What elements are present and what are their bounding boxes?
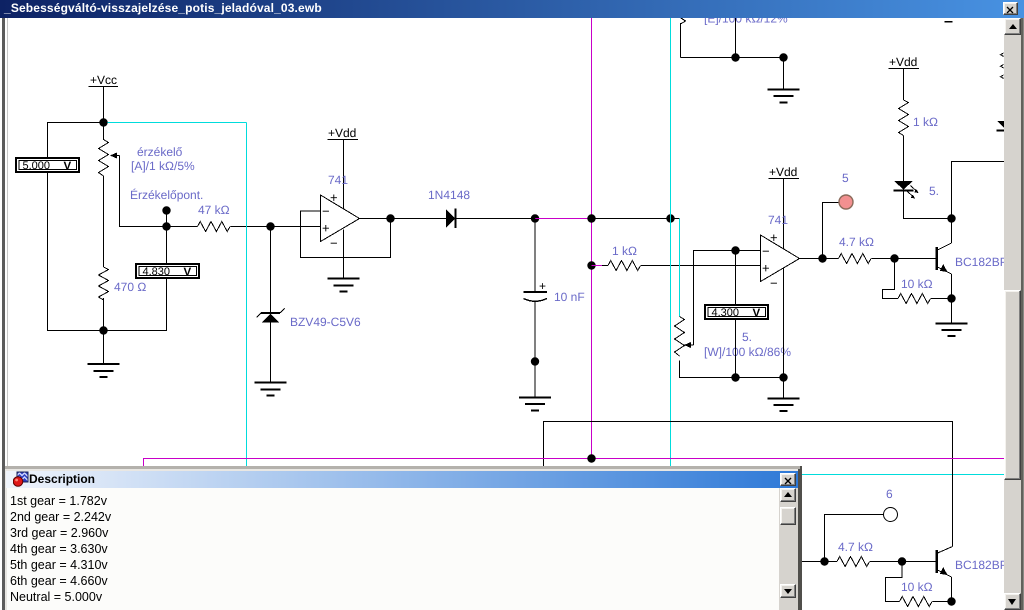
wire voltmeter3 bottom stem — [735, 319, 737, 378]
wire magenta cap to net — [535, 218, 591, 220]
svg-text:+Vdd: +Vdd — [889, 55, 917, 69]
wire 4.7k to base — [872, 258, 937, 260]
svg-text:−: − — [762, 244, 770, 259]
svg-text:−: − — [322, 204, 330, 219]
voltmeter 4.830 V — [136, 264, 199, 279]
wire jog to pot W — [671, 218, 680, 220]
wire op2 output — [800, 258, 839, 260]
wire connector 6 to base row — [825, 515, 884, 562]
node Vcc junction — [99, 118, 107, 126]
ground G3 — [328, 279, 360, 292]
wire LED bottom — [904, 191, 952, 219]
svg-text:1N4148: 1N4148 — [428, 188, 470, 202]
description content — [7, 488, 779, 610]
svg-text:4.7 kΩ: 4.7 kΩ — [838, 540, 873, 554]
ground G4 — [519, 362, 551, 411]
node collector junction — [947, 214, 955, 222]
svg-text:5.: 5. — [929, 184, 939, 198]
op-amp U2 741 — [761, 230, 800, 291]
node op1 output junction — [386, 214, 394, 222]
svg-text:+Vcc: +Vcc — [90, 73, 117, 87]
voltmeter 5.000 V — [16, 158, 79, 173]
svg-text:−: − — [330, 236, 338, 251]
node top mid junction2 — [779, 53, 787, 61]
potentiometer [A] érzékelő — [99, 140, 120, 177]
svg-text:V: V — [753, 308, 761, 320]
svg-text:10 kΩ: 10 kΩ — [901, 277, 933, 291]
op-amp U1 741 — [321, 190, 360, 251]
wire fragment arrows right edge — [1001, 53, 1004, 78]
wire op1 output — [360, 218, 447, 220]
wire Vdd1 stem — [343, 140, 345, 210]
ground G2 — [255, 383, 287, 396]
svg-text:4.830: 4.830 — [143, 266, 171, 278]
scrollbar thumb — [1004, 290, 1021, 480]
svg-text:10 nF: 10 nF — [554, 290, 585, 304]
svg-text:+: + — [762, 261, 770, 276]
close button description — [780, 473, 796, 486]
svg-text:+: + — [322, 221, 330, 236]
resistor 4.7k first — [839, 254, 872, 264]
wire voltmeter2 top stem — [166, 227, 168, 264]
node bottom wire junction2 — [779, 373, 787, 381]
resistor 47k — [198, 222, 231, 232]
node emitter junction2 — [947, 597, 955, 605]
node 4.7k2 left junction — [820, 557, 828, 565]
LED D2 — [894, 181, 919, 199]
node wiper junction — [162, 222, 170, 230]
node red connector 5 — [839, 195, 853, 209]
ground G7 — [768, 58, 800, 103]
svg-text:5.000: 5.000 — [23, 160, 51, 172]
node magenta 1k junction — [587, 261, 595, 269]
window right border — [1021, 18, 1023, 610]
svg-text:1 kΩ: 1 kΩ — [913, 115, 938, 129]
node magenta bottom junction — [587, 454, 595, 462]
resistor 1k led — [899, 100, 909, 136]
window left border — [2, 18, 5, 610]
node cap top junction — [531, 214, 539, 222]
wire Vdd2 stem — [783, 179, 785, 250]
svg-text:5.: 5. — [742, 330, 752, 344]
potentiometer [W] — [675, 317, 694, 357]
wire left branch bottom — [48, 173, 104, 331]
wire black net to cyan node — [592, 218, 671, 220]
wire to red connector — [823, 203, 840, 259]
wire 10k1 jog — [883, 259, 899, 299]
node emitter junction — [947, 294, 955, 302]
node connector 6 — [884, 508, 898, 522]
wire Vcc stem — [103, 87, 105, 141]
wire Vdd3 stem — [903, 69, 905, 101]
resistor 470 Ohm — [99, 267, 109, 300]
wire left branch top — [48, 123, 104, 158]
description scrollbar — [779, 488, 796, 610]
svg-text:741: 741 — [328, 173, 348, 187]
node base junction1 — [890, 254, 898, 262]
wire fragment dash top right — [945, 21, 953, 23]
node bottom wire junction1 — [731, 373, 739, 381]
wire 1k to LED — [903, 136, 905, 182]
power +Vdd led — [889, 55, 920, 69]
wire 10k1 right lead — [931, 298, 952, 300]
wire cap bottom stem — [534, 301, 536, 362]
wire collector top feed — [952, 162, 1007, 219]
svg-text:+: + — [330, 190, 338, 205]
node magenta top junction — [587, 214, 595, 222]
svg-text:−: − — [770, 276, 778, 291]
svg-text:érzékelő: érzékelő — [137, 145, 183, 159]
window title bar — [0, 0, 1024, 18]
wire pot A to 470 — [103, 176, 105, 267]
svg-text:+: + — [539, 279, 546, 293]
wire pot W bottom — [680, 361, 784, 378]
wire op2 vminus stub — [783, 268, 785, 378]
wire cyan selected left vertical — [246, 123, 248, 467]
potentiometer [E] fragment top — [680, 17, 686, 58]
wire 10k2 jog — [886, 562, 903, 602]
svg-text:BC182BP: BC182BP — [955, 255, 1008, 269]
svg-text:47 kΩ: 47 kΩ — [198, 203, 230, 217]
node cap ground junction — [531, 357, 539, 365]
wire magenta vertical — [591, 18, 593, 459]
wire top mid vertical — [735, 14, 737, 58]
resistor 1k — [608, 261, 641, 271]
node Érzékelőpont connector — [162, 206, 170, 214]
wire cap top stem — [534, 219, 536, 293]
wire long mid horizontal — [544, 422, 953, 547]
wire Q1 collector up — [951, 219, 953, 244]
node top mid junction1 — [731, 53, 739, 61]
resistor 10k first — [898, 294, 931, 304]
svg-text:470 Ω: 470 Ω — [114, 280, 146, 294]
right scrollbar — [1004, 18, 1021, 610]
svg-text:1 kΩ: 1 kΩ — [612, 244, 637, 258]
wire zener top stem — [270, 227, 272, 314]
svg-text:+Vdd: +Vdd — [769, 165, 797, 179]
wire 10k2 right lead — [933, 601, 952, 603]
svg-text:741: 741 — [768, 213, 788, 227]
wire op1 feedback — [301, 211, 391, 258]
wire Q1 emitter down — [951, 274, 953, 299]
diode 1N4148 — [446, 209, 456, 229]
wire zener bottom stem — [270, 323, 272, 383]
Description window — [5, 466, 802, 610]
svg-text:V: V — [184, 267, 192, 279]
capacitor 10nF — [524, 279, 548, 301]
wire voltmeter2 bottom stem — [104, 278, 167, 331]
wire top mid horizontal — [681, 57, 784, 59]
node bottom junction — [99, 326, 107, 334]
wire magenta bottom horizontal — [144, 459, 1007, 468]
wire Q2 emitter down — [951, 577, 953, 602]
power +Vcc — [89, 73, 119, 87]
svg-text:10 kΩ: 10 kΩ — [901, 580, 933, 594]
ground G6 — [936, 299, 968, 337]
node base junction2 — [898, 557, 906, 565]
svg-text:+: + — [770, 230, 778, 245]
wire diode to cap node — [456, 218, 536, 220]
svg-text:Érzékelőpont.: Érzékelőpont. — [130, 188, 203, 202]
resistor 4.7k second — [837, 557, 870, 567]
wire connector stem — [166, 211, 168, 227]
close button main — [1003, 2, 1018, 15]
power +Vdd op1 — [328, 126, 359, 140]
wire cyan pot W top — [679, 219, 681, 317]
description title bar — [6, 471, 798, 488]
svg-text:4.300: 4.300 — [712, 307, 740, 319]
svg-text:[W]/100 kΩ/86%: [W]/100 kΩ/86% — [704, 345, 791, 359]
wire cyan selected top-left horizontal — [108, 122, 247, 124]
wire wiper down — [120, 156, 198, 227]
wire 1k left lead — [602, 265, 608, 267]
wire cyan selected vertical — [670, 18, 672, 466]
node op2 minus input junction — [731, 246, 739, 254]
node cyan junction — [666, 214, 674, 222]
wire pot W wiper up — [694, 251, 761, 346]
wire hidden opamp output — [799, 561, 837, 563]
wire 470 to junction — [103, 298, 105, 331]
svg-text:+Vdd: +Vdd — [328, 126, 356, 140]
diode fragment right edge — [997, 121, 1013, 131]
voltmeter 4.300 V — [705, 305, 768, 320]
power +Vdd op2 — [769, 165, 800, 179]
svg-text:V: V — [64, 161, 72, 173]
svg-text:4.7 kΩ: 4.7 kΩ — [839, 235, 874, 249]
svg-text:6: 6 — [886, 487, 893, 501]
resistor 10k second — [900, 597, 933, 607]
svg-text:5: 5 — [842, 171, 849, 185]
svg-text:BZV49-C5V6: BZV49-C5V6 — [290, 315, 361, 329]
wire cyan selected bottom-right horizontal — [802, 474, 1006, 476]
wire 4.7k2 to base — [870, 561, 936, 563]
description icon — [13, 471, 29, 488]
wire op1 vminus stub — [343, 230, 345, 279]
node zener junction — [266, 222, 274, 230]
svg-text:[A]/1 kΩ/5%: [A]/1 kΩ/5% — [131, 159, 195, 173]
node op2 output junction — [818, 254, 826, 262]
wire voltmeter3 top stem — [735, 251, 737, 305]
wire 1k to op2 plus input — [641, 265, 761, 267]
wire magenta 1k stub — [592, 265, 603, 267]
scrollbar down button — [1004, 593, 1021, 610]
transistor Q2 BC182BP — [937, 547, 953, 578]
wire 47k to opamp — [231, 226, 321, 228]
transistor Q1 BC182BP — [937, 243, 952, 274]
scrollbar up button — [1004, 18, 1021, 35]
svg-text:BC182BP: BC182BP — [955, 558, 1008, 572]
ground G1 — [88, 331, 120, 378]
zener diode BZV49-C5V6 — [257, 309, 285, 323]
ground G5 — [768, 378, 800, 412]
